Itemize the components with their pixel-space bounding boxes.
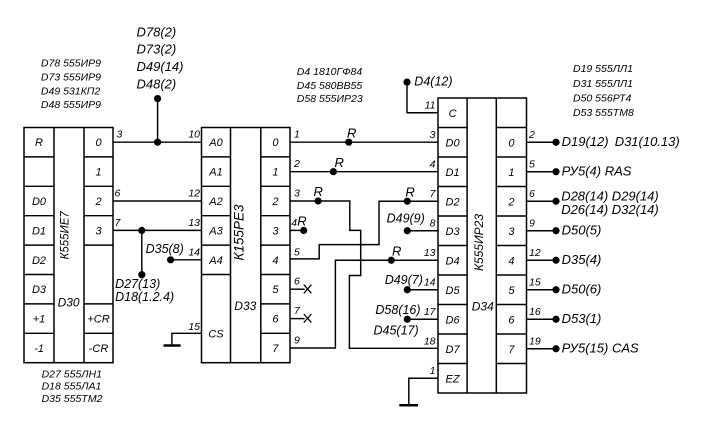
svg-text:D58(16): D58(16): [375, 303, 420, 317]
svg-text:К555ИР23: К555ИР23: [472, 214, 486, 271]
svg-text:A0: A0: [208, 137, 223, 149]
svg-text:14: 14: [188, 246, 200, 258]
svg-text:12: 12: [529, 247, 541, 259]
svg-text:5: 5: [508, 285, 515, 297]
svg-text:D4 1810ГФ84: D4 1810ГФ84: [297, 66, 363, 78]
svg-text:7: 7: [115, 217, 122, 229]
svg-text:D4: D4: [446, 255, 460, 267]
svg-text:D45(17): D45(17): [374, 323, 419, 337]
svg-text:2: 2: [507, 196, 514, 208]
svg-text:D0: D0: [32, 196, 47, 208]
svg-text:D2: D2: [32, 255, 46, 267]
svg-text:11: 11: [425, 99, 436, 111]
svg-text:D3: D3: [446, 226, 461, 238]
svg-text:7: 7: [294, 305, 301, 317]
svg-text:D19(12): D19(12): [562, 134, 609, 149]
svg-text:D73 555ИР9: D73 555ИР9: [41, 72, 101, 84]
svg-text:D5: D5: [446, 285, 461, 297]
svg-text:D49 531КП2: D49 531КП2: [41, 85, 100, 97]
svg-text:D6: D6: [446, 314, 461, 326]
svg-text:C: C: [449, 108, 457, 120]
svg-text:D53 555ТМ8: D53 555ТМ8: [573, 107, 634, 119]
svg-text:D31(10.13): D31(10.13): [615, 134, 680, 149]
svg-text:13: 13: [424, 247, 436, 259]
svg-text:РУ5(4) RAS: РУ5(4) RAS: [562, 164, 632, 179]
svg-text:9: 9: [529, 217, 535, 229]
svg-text:3: 3: [294, 188, 300, 200]
svg-text:1: 1: [508, 167, 514, 179]
svg-text:A4: A4: [208, 255, 222, 267]
svg-text:19: 19: [529, 335, 541, 347]
svg-text:D31 555ЛЛ1: D31 555ЛЛ1: [573, 78, 633, 90]
svg-text:7: 7: [430, 188, 437, 200]
svg-text:2: 2: [293, 158, 300, 170]
svg-text:0: 0: [95, 137, 102, 149]
svg-text:D34: D34: [472, 300, 494, 314]
svg-text:15: 15: [188, 321, 200, 333]
svg-text:R: R: [314, 184, 323, 199]
svg-text:D27 555ЛН1: D27 555ЛН1: [42, 368, 102, 380]
svg-text:3: 3: [95, 225, 102, 237]
svg-text:D50(6): D50(6): [562, 282, 602, 297]
svg-text:6: 6: [272, 314, 279, 326]
svg-text:D27(13): D27(13): [115, 277, 160, 291]
svg-text:18: 18: [424, 335, 436, 347]
svg-text:-1: -1: [34, 343, 44, 355]
svg-text:D2: D2: [446, 196, 460, 208]
svg-text:D50(5): D50(5): [562, 223, 602, 238]
svg-text:D35(8): D35(8): [146, 242, 184, 256]
svg-text:5: 5: [529, 158, 535, 170]
svg-text:EZ: EZ: [446, 373, 461, 385]
svg-text:6: 6: [508, 314, 515, 326]
svg-text:CS: CS: [208, 328, 224, 340]
svg-text:D48 555ИР9: D48 555ИР9: [41, 99, 101, 111]
svg-text:D4(12): D4(12): [414, 75, 452, 89]
svg-text:R: R: [405, 184, 414, 199]
svg-text:R: R: [347, 125, 356, 140]
svg-text:13: 13: [188, 217, 200, 229]
svg-text:A2: A2: [208, 196, 222, 208]
svg-text:D58 555ИР23: D58 555ИР23: [297, 93, 363, 105]
svg-text:0: 0: [272, 137, 279, 149]
svg-text:4: 4: [430, 158, 436, 170]
svg-text:3: 3: [430, 129, 436, 141]
svg-text:D18 555ЛА1: D18 555ЛА1: [42, 381, 102, 393]
svg-text:D48(2): D48(2): [137, 76, 177, 91]
svg-text:2: 2: [271, 196, 278, 208]
svg-text:D78 555ИР9: D78 555ИР9: [41, 58, 101, 70]
svg-text:+1: +1: [33, 314, 46, 326]
svg-text:2: 2: [94, 196, 101, 208]
svg-text:D73(2): D73(2): [137, 42, 177, 57]
svg-text:D45 580ВВ55: D45 580ВВ55: [297, 80, 363, 92]
svg-text:0: 0: [508, 137, 515, 149]
svg-text:1: 1: [272, 167, 278, 179]
svg-text:7: 7: [508, 344, 515, 356]
svg-text:D0: D0: [446, 137, 461, 149]
svg-text:14: 14: [424, 276, 436, 288]
svg-text:17: 17: [424, 306, 437, 318]
svg-text:4: 4: [272, 255, 278, 267]
svg-text:7: 7: [272, 343, 279, 355]
svg-text:A3: A3: [208, 225, 223, 237]
svg-text:6: 6: [115, 188, 121, 200]
svg-text:3: 3: [117, 129, 123, 141]
svg-text:16: 16: [529, 306, 541, 318]
svg-text:15: 15: [529, 276, 541, 288]
svg-text:6: 6: [529, 188, 535, 200]
svg-text:R: R: [392, 243, 401, 258]
svg-text:1: 1: [430, 365, 436, 377]
svg-text:+CR: +CR: [87, 314, 109, 326]
svg-text:R: R: [35, 137, 43, 149]
svg-text:D19 555ЛЛ1: D19 555ЛЛ1: [573, 63, 633, 75]
svg-text:D3: D3: [32, 284, 47, 296]
svg-text:-CR: -CR: [89, 343, 109, 355]
svg-text:D7: D7: [446, 344, 461, 356]
svg-text:D49(7): D49(7): [385, 273, 423, 287]
svg-text:РУ5(15) CAS: РУ5(15) CAS: [562, 341, 639, 356]
svg-text:D35(4): D35(4): [562, 252, 602, 267]
svg-text:2: 2: [528, 129, 535, 141]
svg-text:4: 4: [508, 255, 514, 267]
svg-text:1: 1: [294, 129, 300, 141]
svg-text:D49(14): D49(14): [137, 59, 184, 74]
svg-text:A1: A1: [208, 167, 222, 179]
svg-text:8: 8: [430, 217, 436, 229]
svg-text:D18(1.2.4): D18(1.2.4): [115, 290, 174, 304]
svg-text:3: 3: [508, 226, 515, 238]
svg-text:5: 5: [272, 284, 279, 296]
svg-text:10: 10: [188, 129, 200, 141]
svg-text:R: R: [297, 214, 306, 229]
svg-text:1: 1: [95, 167, 101, 179]
svg-text:3: 3: [272, 225, 279, 237]
svg-text:К155РЕ3: К155РЕ3: [232, 204, 247, 260]
svg-text:5: 5: [294, 246, 300, 258]
svg-text:D26(14) D32(14): D26(14) D32(14): [561, 202, 659, 217]
svg-text:D1: D1: [32, 225, 46, 237]
svg-text:9: 9: [294, 335, 300, 347]
svg-text:D53(1): D53(1): [562, 311, 602, 326]
svg-text:6: 6: [294, 276, 300, 288]
svg-text:D78(2): D78(2): [137, 24, 177, 39]
svg-text:D50 556РТ4: D50 556РТ4: [573, 92, 632, 104]
svg-text:D33: D33: [234, 299, 256, 313]
svg-text:К555ИЕ7: К555ИЕ7: [60, 211, 72, 260]
svg-text:D1: D1: [446, 167, 460, 179]
svg-text:R: R: [335, 155, 344, 170]
svg-text:D35 555ТМ2: D35 555ТМ2: [42, 393, 103, 405]
svg-text:D49(9): D49(9): [387, 212, 425, 226]
svg-text:D30: D30: [58, 296, 80, 310]
svg-text:12: 12: [188, 188, 200, 200]
